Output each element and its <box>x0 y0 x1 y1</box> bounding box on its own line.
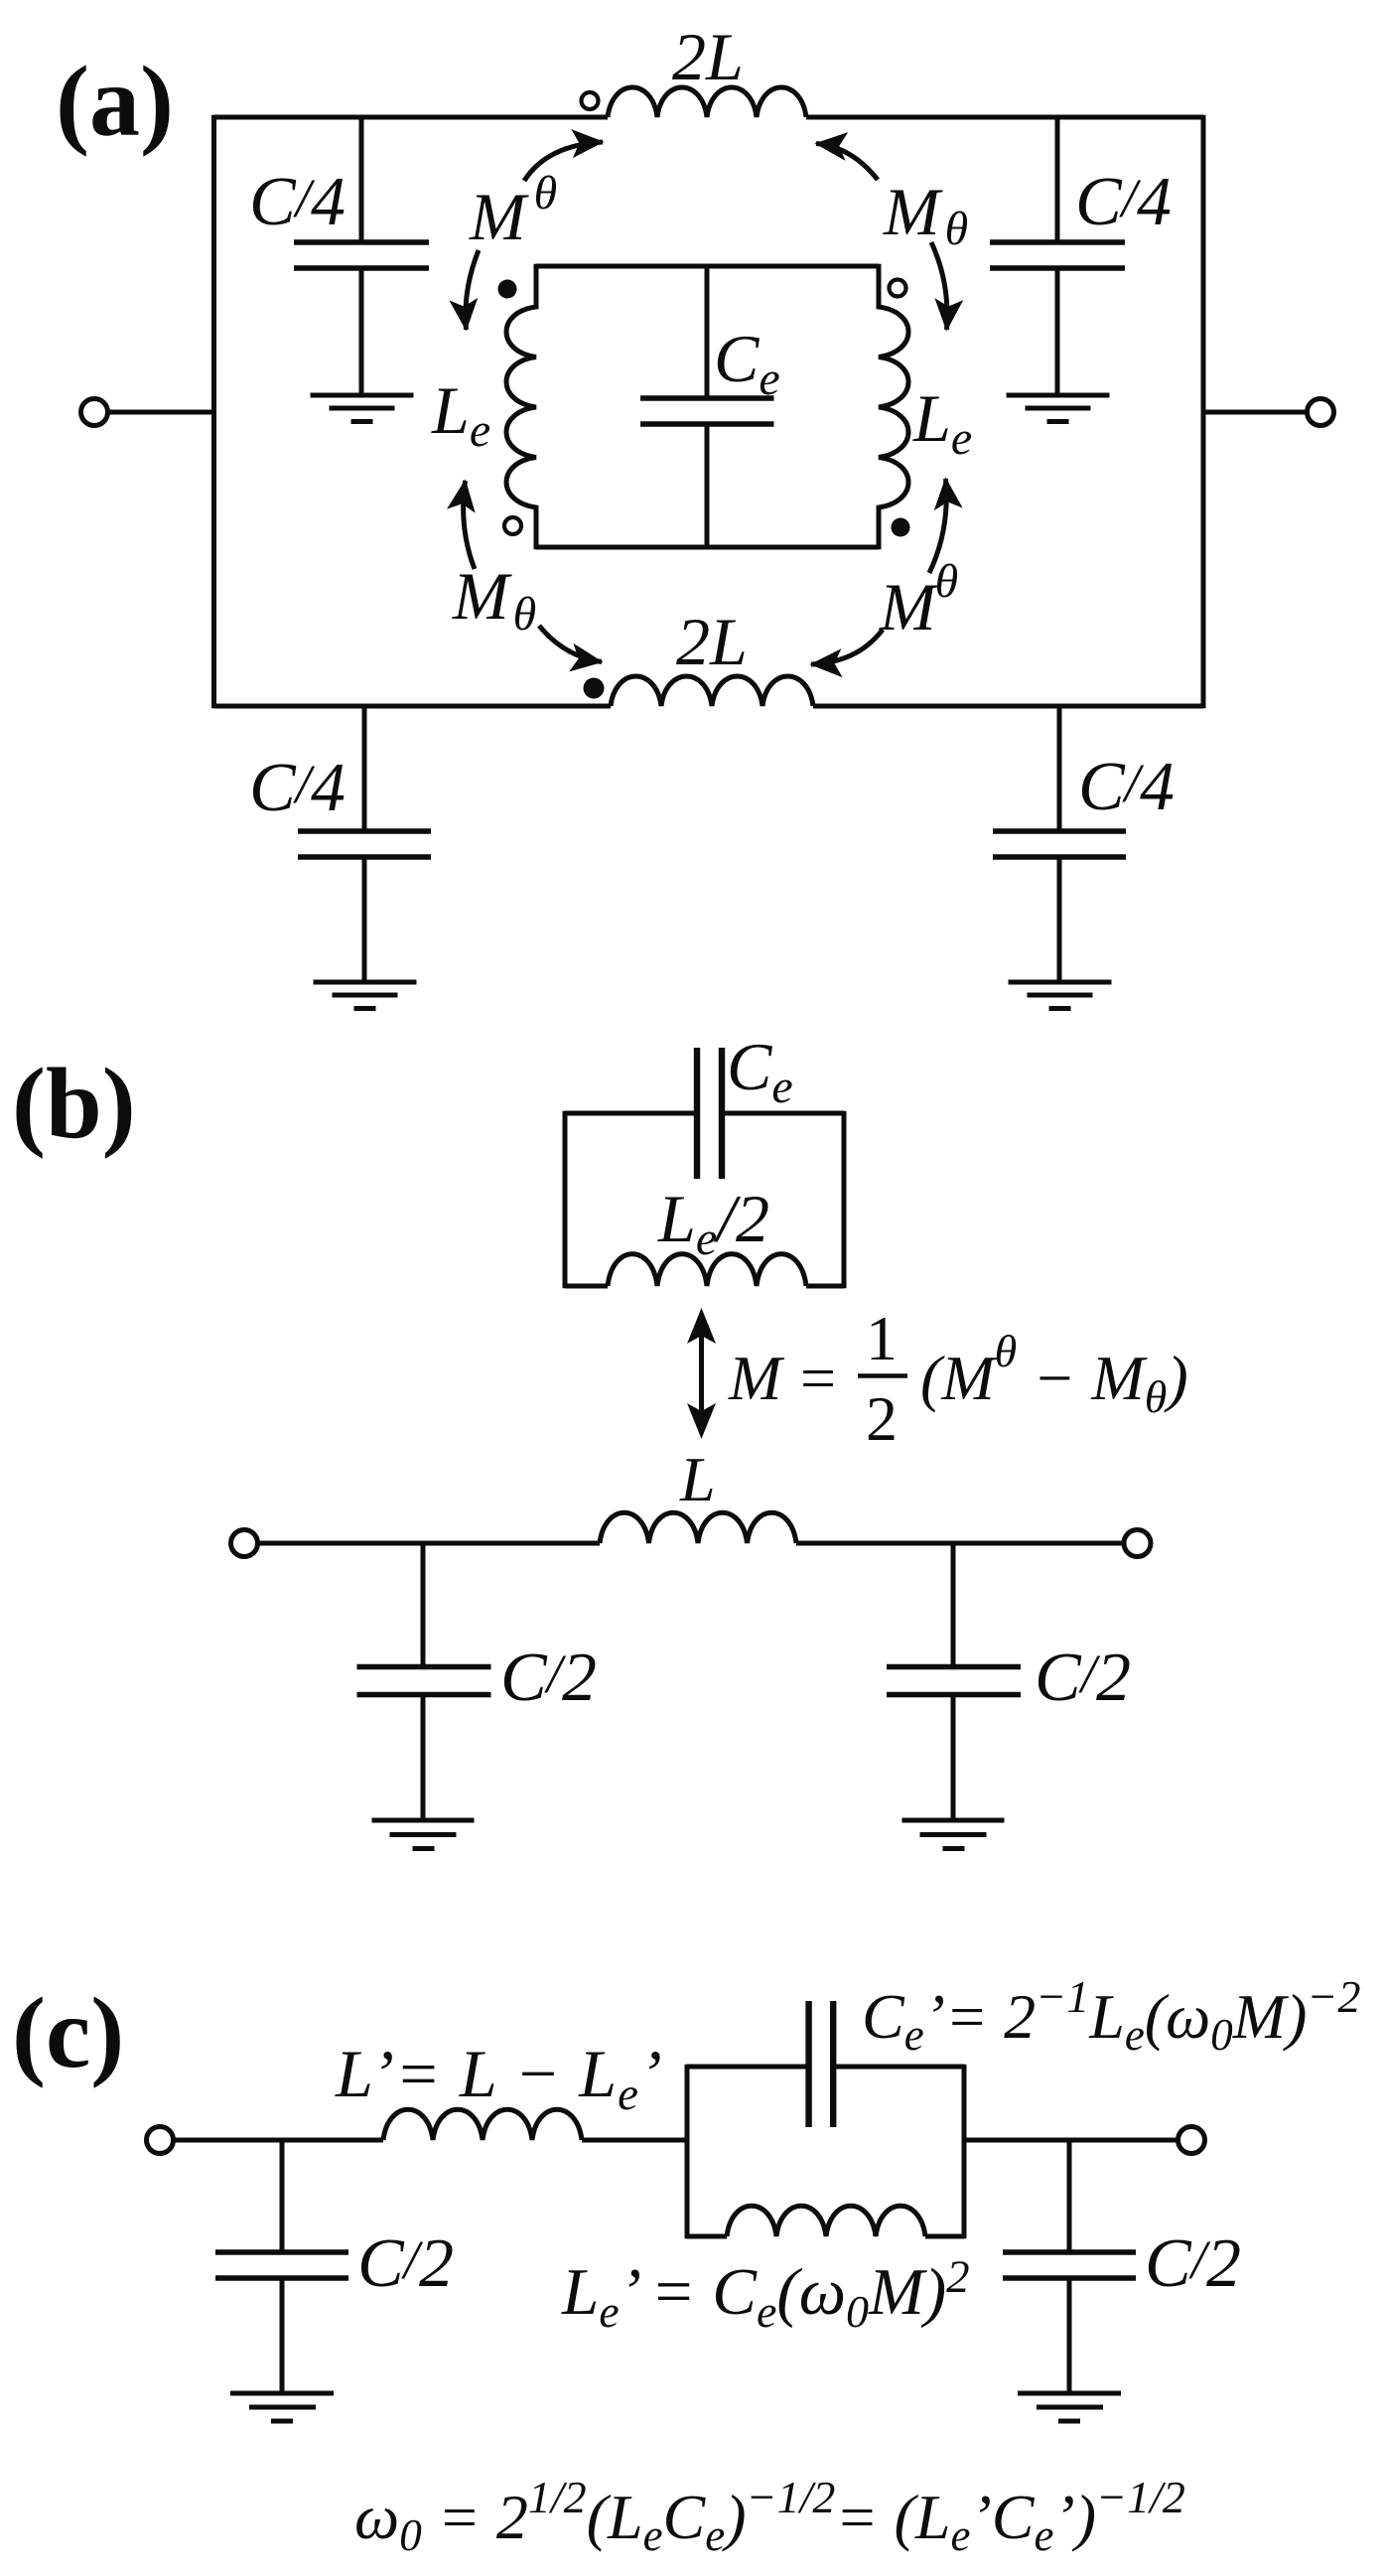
ground (b right) <box>902 1820 1005 1849</box>
inductor Le (left, on inner loop left edge) <box>506 264 536 550</box>
ground (b left) <box>372 1820 475 1849</box>
ground (bottom-left) <box>314 982 417 1009</box>
panel label (a) <box>56 46 174 158</box>
wire: tank top edge segments <box>687 2065 964 2070</box>
ground (top-left) <box>311 395 414 422</box>
port terminal (c left) <box>147 2127 174 2154</box>
formula M = 1/2 (M^theta - M_theta) <box>728 1303 1188 1454</box>
svg-text:2L: 2L <box>676 604 748 679</box>
wire: outer loop left edge <box>211 115 216 709</box>
svg-text:M: M <box>728 1343 785 1413</box>
coupling arrow M_theta to bottom 2L <box>539 626 602 662</box>
panel label (c) <box>12 1977 124 2089</box>
ground (c right) <box>1018 2393 1121 2421</box>
inductor L (b) <box>600 1512 796 1543</box>
panel label (b) <box>12 1048 136 1160</box>
coupling arrow M_theta to left Le circle <box>464 481 475 569</box>
wire: loop top edge segments <box>565 1111 844 1116</box>
polarity mark (dot) of bottom 2L <box>584 678 605 699</box>
wire: inner loop centre stub (bottom) <box>705 426 710 547</box>
capacitor C/2 (c left) <box>215 2140 348 2391</box>
resonator loop (b): right edge <box>842 1111 847 1289</box>
wire: outer loop bottom-left segment <box>214 704 612 709</box>
wire: inner loop centre stub (top) <box>705 266 710 396</box>
wire: tank bottom edge segments <box>687 2234 964 2239</box>
inner resonator loop: top edge <box>536 264 879 269</box>
mutual coupling double arrow M <box>699 1331 704 1418</box>
coupling arrow M^theta to left Le dot <box>466 250 479 330</box>
wire: c left lead <box>174 2138 383 2143</box>
polarity mark (open) of top 2L <box>582 92 599 109</box>
wire: b right lead <box>796 1541 1124 1546</box>
svg-text:2: 2 <box>866 1383 898 1454</box>
svg-text:(a): (a) <box>56 46 174 158</box>
inductor Le/2 (b) <box>608 1254 806 1286</box>
capacitor C/2 (b left) <box>357 1543 491 1818</box>
capacitor C/4 (top-left) <box>294 119 429 393</box>
svg-text:L’= L − Le’: L’= L − Le’ <box>335 2036 663 2120</box>
ground (top-right) <box>1007 395 1110 422</box>
capacitor C/4 (bottom-right) <box>993 706 1126 980</box>
capacitor Ce (b) <box>697 1048 722 1179</box>
inner resonator loop: bottom edge <box>536 545 879 550</box>
wire: c series link <box>582 2138 687 2143</box>
wire: loop bottom edge segments <box>565 1284 844 1289</box>
polarity mark (open) of right Le <box>890 280 906 297</box>
tank box (c): right edge <box>962 2065 967 2239</box>
polarity mark (open) of left Le <box>504 517 521 534</box>
wire: left port lead <box>108 410 213 415</box>
svg-text:Ce’= 2−1Le(ω0M)−2: Ce’= 2−1Le(ω0M)−2 <box>862 1971 1360 2060</box>
capacitor Ce' (c) <box>809 2001 834 2127</box>
coupling arrow M_theta to top 2L <box>816 144 878 181</box>
wire: b left lead <box>258 1541 600 1546</box>
wire: outer loop top-right segment <box>806 115 1203 120</box>
coupling arrow M^theta to top 2L <box>524 142 603 181</box>
resonator loop (b): left edge <box>563 1111 568 1289</box>
polarity mark (dot) of left Le <box>498 280 517 299</box>
inductor Le (right, on inner loop right edge) <box>879 264 908 550</box>
capacitor Ce (inner) <box>640 398 774 424</box>
inductor L' (c) <box>383 2109 582 2140</box>
svg-text:L: L <box>679 1444 716 1514</box>
wire: outer loop top-left segment <box>214 115 609 120</box>
coupling arrow M^theta to right Le dot <box>929 479 946 573</box>
inductor Le' (c, tank bottom) <box>727 2206 925 2236</box>
coupling arrow M_theta to right Le circle <box>931 242 947 330</box>
capacitor C/4 (top-right) <box>990 119 1125 393</box>
port terminal (left) <box>81 399 108 426</box>
inductor 2L (top) <box>608 87 806 117</box>
wire: c right link <box>964 2138 1178 2143</box>
svg-text:(b): (b) <box>12 1048 136 1160</box>
wire: outer loop bottom-right segment <box>813 704 1203 709</box>
svg-text:2L: 2L <box>672 19 744 94</box>
ground (c left) <box>230 2393 334 2421</box>
svg-text:1: 1 <box>866 1303 898 1373</box>
port terminal (c right) <box>1178 2127 1205 2154</box>
capacitor C/2 (b right) <box>887 1543 1021 1818</box>
port terminal (b right) <box>1124 1530 1151 1557</box>
wire: outer loop right edge <box>1201 115 1206 709</box>
tank box (c): left edge <box>685 2065 690 2239</box>
wire: right port lead <box>1203 410 1307 415</box>
polarity mark (dot) of right Le <box>892 518 910 537</box>
capacitor C/2 (c right) <box>1003 2140 1136 2391</box>
port terminal (right) <box>1308 399 1334 426</box>
capacitor C/4 (bottom-left) <box>298 706 431 980</box>
svg-text:=: = <box>800 1343 836 1413</box>
inductor 2L (bottom) <box>611 676 813 706</box>
ground (bottom-right) <box>1009 982 1112 1009</box>
port terminal (b left) <box>231 1530 258 1557</box>
coupling arrow M^theta to bottom 2L <box>811 630 883 664</box>
svg-text:(c): (c) <box>12 1977 124 2089</box>
